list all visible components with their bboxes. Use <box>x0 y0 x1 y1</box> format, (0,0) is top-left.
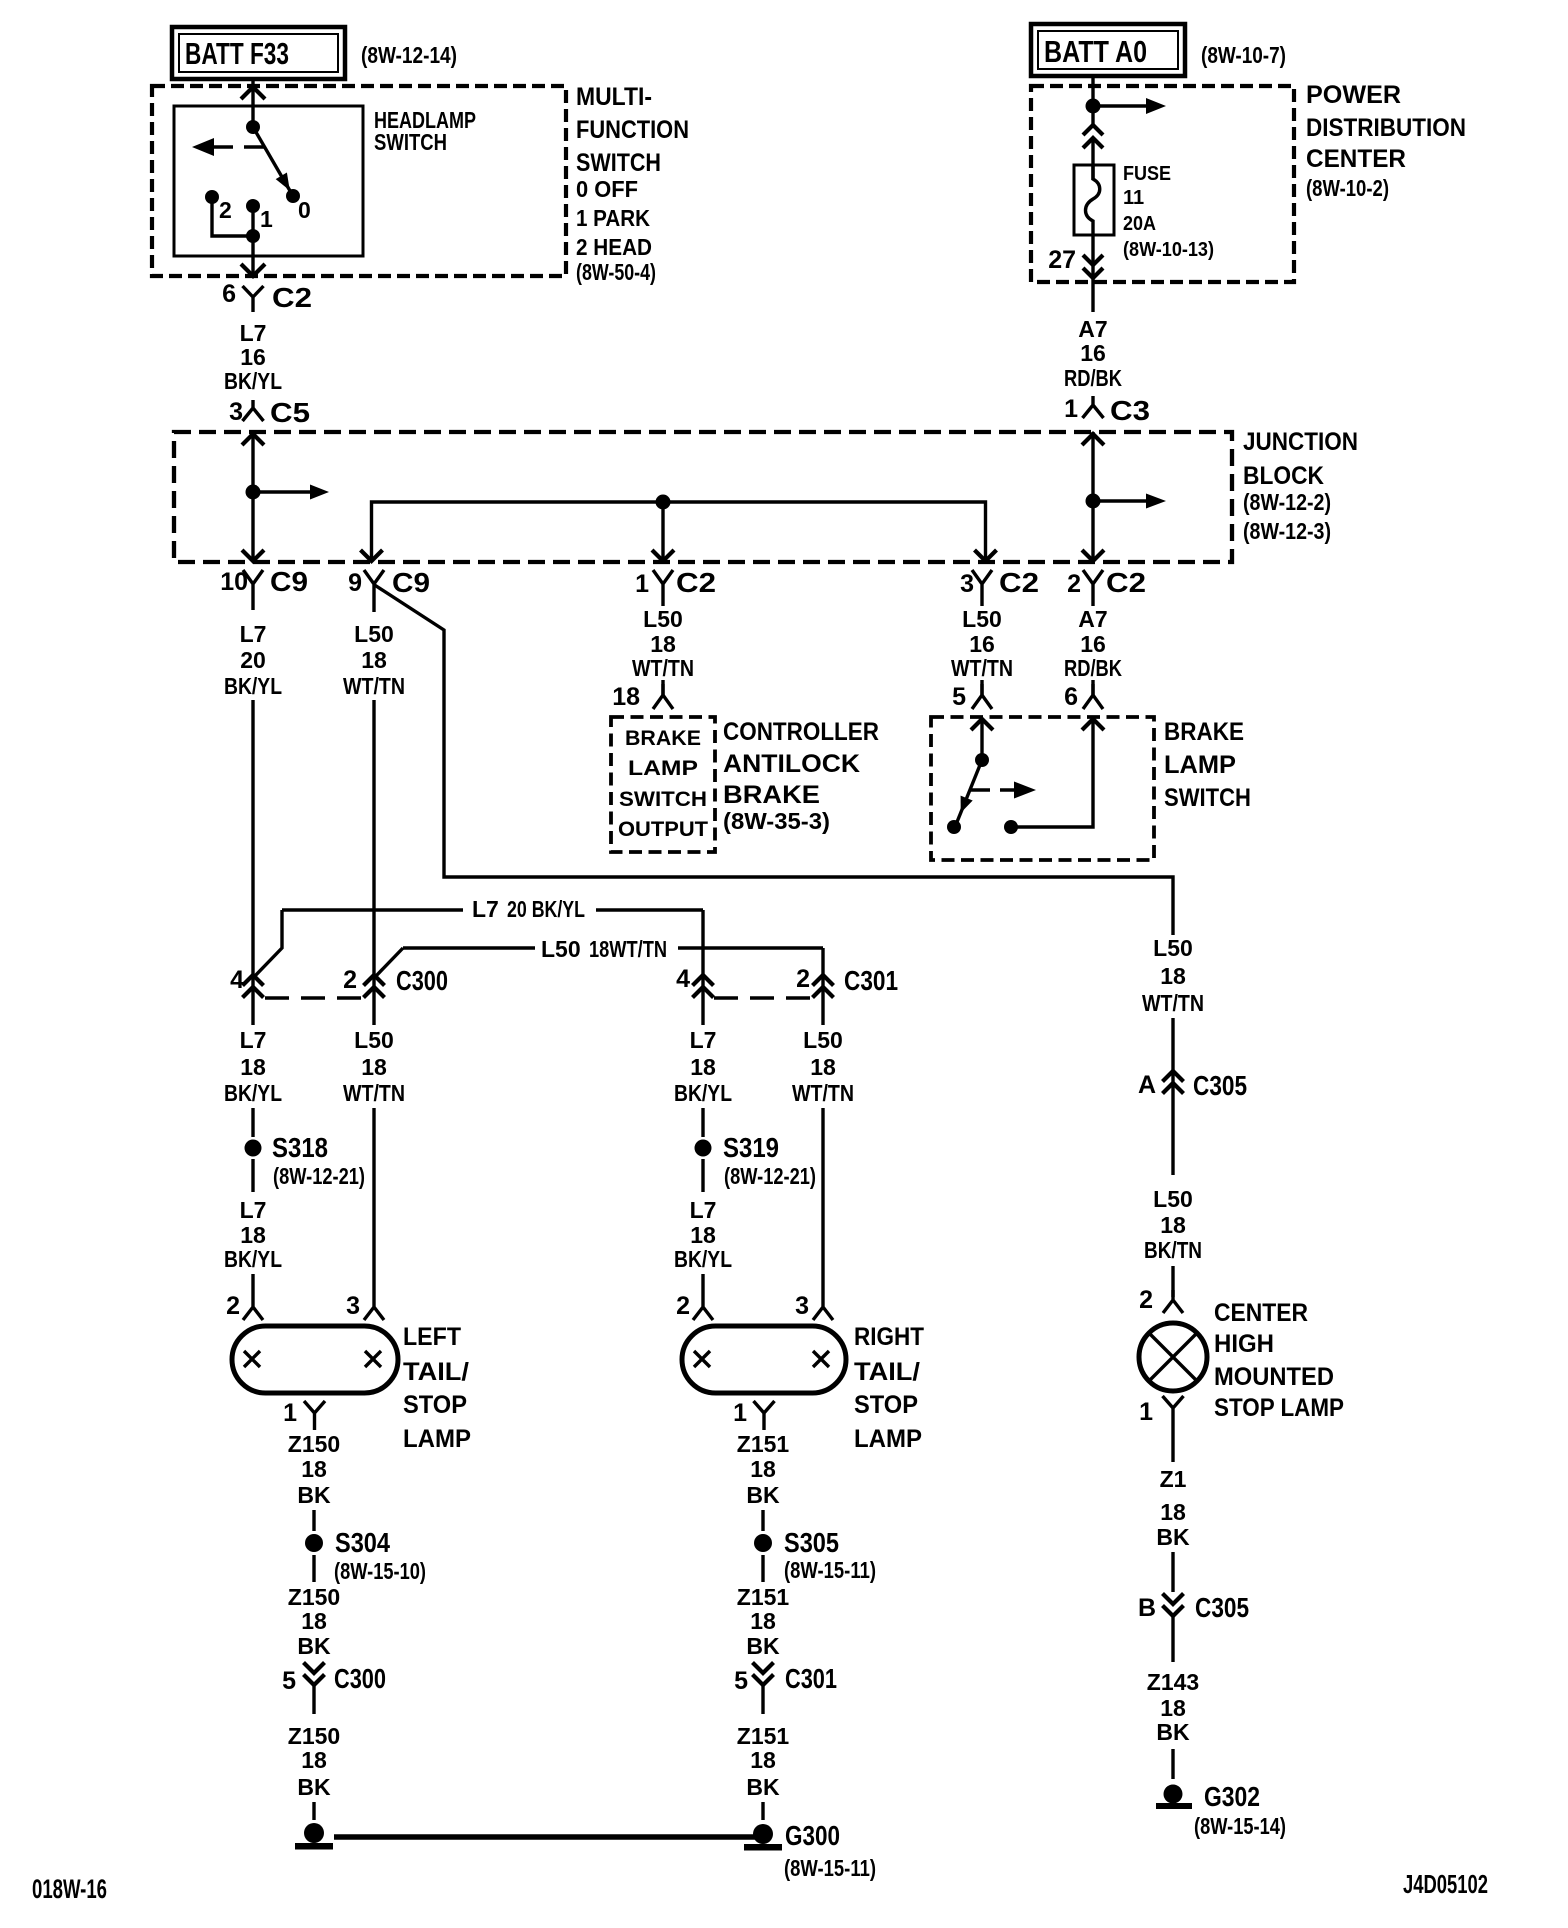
BLS pivot dot <box>975 753 989 767</box>
controller antilock brake dashed box <box>611 717 715 852</box>
svg-text:(8W-12-21): (8W-12-21) <box>724 1163 816 1189</box>
svg-text:18: 18 <box>301 1608 327 1634</box>
wire L50 drop to C300 <box>372 700 375 1025</box>
svg-text:(8W-10-13): (8W-10-13) <box>1123 239 1214 261</box>
svg-text:J4D05102: J4D05102 <box>1403 1869 1488 1899</box>
svg-text:L50: L50 <box>962 606 1002 632</box>
connector 5 BLS <box>952 683 992 711</box>
svg-text:5: 5 <box>282 1667 296 1695</box>
svg-text:5: 5 <box>734 1667 748 1695</box>
svg-text:Z1: Z1 <box>1160 1466 1187 1492</box>
svg-text:L7: L7 <box>240 1027 267 1053</box>
wire label A7 16 RD/BK <box>1064 316 1122 391</box>
wire segment above S305 <box>761 1510 764 1531</box>
svg-text:1 PARK: 1 PARK <box>576 205 650 231</box>
connector 2 center lamp <box>1139 1286 1183 1314</box>
splice S304 <box>305 1527 426 1584</box>
connector 2 right lamp <box>676 1292 713 1320</box>
svg-text:18: 18 <box>240 1054 266 1080</box>
svg-text:A7: A7 <box>1078 606 1107 632</box>
power distribution center dashed box <box>1031 86 1294 282</box>
wire L50 into left lamp pin 3 <box>372 1108 375 1297</box>
arrowhead out JB bottom left <box>242 550 264 561</box>
connector C300 pin 4 <box>230 966 263 998</box>
wire segment below S304 <box>312 1555 315 1582</box>
label POWER DISTRIBUTION CENTER <box>1306 81 1466 201</box>
wire segment above S304 <box>312 1510 315 1531</box>
fuse labels <box>1123 163 1214 261</box>
svg-text:STOP LAMP: STOP LAMP <box>1214 1394 1344 1422</box>
svg-text:LAMP: LAMP <box>854 1425 922 1453</box>
svg-text:S319: S319 <box>723 1132 779 1163</box>
svg-text:16: 16 <box>969 631 995 657</box>
svg-text:WT/TN: WT/TN <box>792 1080 854 1106</box>
svg-text:18: 18 <box>301 1747 327 1773</box>
svg-text:G300: G300 <box>785 1820 840 1851</box>
wire label L50 18 WT/TN controller <box>632 606 694 681</box>
BATT F33 feed box <box>172 27 345 79</box>
svg-text:MULTI-: MULTI- <box>576 83 652 111</box>
svg-text:L7: L7 <box>240 320 267 346</box>
svg-text:STOP: STOP <box>854 1391 918 1419</box>
wire label L7 20 BK/YL <box>224 621 282 699</box>
svg-text:BATT F33: BATT F33 <box>185 36 289 71</box>
svg-text:L7: L7 <box>690 1027 717 1053</box>
right tail/stop lamp <box>682 1326 846 1393</box>
svg-text:C300: C300 <box>334 1663 386 1694</box>
svg-text:BK: BK <box>1156 1524 1190 1550</box>
svg-text:L50: L50 <box>643 606 683 632</box>
bus junction dot <box>656 495 671 510</box>
svg-text:Z150: Z150 <box>288 1584 340 1610</box>
C300 pin link dashes <box>265 996 363 999</box>
svg-text:1: 1 <box>1139 1398 1153 1426</box>
svg-text:4: 4 <box>230 966 244 994</box>
svg-text:WT/TN: WT/TN <box>951 655 1013 681</box>
headlamp switch box <box>174 106 363 256</box>
arrowhead out JB bottom right <box>1082 550 1104 561</box>
splice S318 <box>245 1132 366 1189</box>
svg-text:(8W-12-2): (8W-12-2) <box>1243 489 1331 515</box>
svg-text:DISTRIBUTION: DISTRIBUTION <box>1306 114 1466 142</box>
wire segment above left ground <box>312 1802 315 1820</box>
svg-text:(8W-50-4): (8W-50-4) <box>576 259 656 285</box>
actuation arrow left <box>244 145 264 148</box>
svg-text:STOP: STOP <box>403 1391 467 1419</box>
wire segment above S318 <box>251 1108 254 1137</box>
connector 5 C300 <box>282 1663 386 1715</box>
svg-text:2: 2 <box>343 966 357 994</box>
svg-text:BRAKE: BRAKE <box>1164 718 1244 746</box>
svg-text:BK: BK <box>297 1774 331 1800</box>
svg-text:ANTILOCK: ANTILOCK <box>723 750 860 778</box>
svg-text:MOUNTED: MOUNTED <box>1214 1363 1334 1391</box>
svg-text:18: 18 <box>690 1054 716 1080</box>
svg-text:SWITCH: SWITCH <box>374 129 447 155</box>
svg-text:(8W-12-3): (8W-12-3) <box>1243 518 1331 544</box>
connector 3 C2 <box>960 567 1039 606</box>
connector C301 pin 4 <box>676 965 713 998</box>
splice S319 <box>695 1132 817 1189</box>
wire segment below S319 <box>701 1159 704 1192</box>
svg-text:Z150: Z150 <box>288 1431 340 1457</box>
svg-text:C3: C3 <box>1110 395 1150 426</box>
svg-text:TAIL/: TAIL/ <box>854 1358 920 1386</box>
wire label Z150 18 BK <box>288 1431 340 1508</box>
wire into left lamp pin 2 <box>251 1274 254 1297</box>
svg-text:18: 18 <box>1160 1212 1186 1238</box>
svg-text:1: 1 <box>283 1399 297 1427</box>
center high mounted stop lamp <box>1139 1323 1207 1391</box>
BLS fixed contact <box>1004 820 1018 834</box>
svg-text:Z143: Z143 <box>1147 1669 1199 1695</box>
label CONTROLLER ANTILOCK BRAKE <box>723 718 879 834</box>
svg-text:POWER: POWER <box>1306 81 1401 109</box>
svg-text:16: 16 <box>1080 340 1106 366</box>
svg-text:18: 18 <box>690 1222 716 1248</box>
svg-text:4: 4 <box>676 965 690 993</box>
svg-text:BLOCK: BLOCK <box>1243 462 1324 490</box>
svg-text:BK: BK <box>1156 1719 1190 1745</box>
wire contact2 to junction <box>212 197 253 236</box>
svg-text:WT/TN: WT/TN <box>632 655 694 681</box>
label line L7 20 BK/YL <box>254 896 703 1025</box>
svg-text:(8W-12-14): (8W-12-14) <box>361 42 457 68</box>
svg-text:(8W-12-21): (8W-12-21) <box>273 1163 365 1189</box>
wire out of MFS bottom <box>251 236 254 276</box>
svg-text:(8W-35-3): (8W-35-3) <box>723 808 830 834</box>
svg-text:BK: BK <box>746 1774 780 1800</box>
wire label Z150 18 BK mid <box>288 1584 340 1659</box>
JB left feed wire <box>251 432 254 562</box>
svg-text:2: 2 <box>1067 570 1081 598</box>
svg-text:16: 16 <box>1080 631 1106 657</box>
wire to BLS pin 5 <box>980 680 983 695</box>
svg-text:2: 2 <box>226 1292 240 1320</box>
wire to connector A C305 <box>1171 1018 1174 1175</box>
svg-text:3: 3 <box>960 570 974 598</box>
svg-text:A: A <box>1138 1071 1156 1099</box>
svg-text:20A: 20A <box>1123 213 1156 235</box>
svg-text:L7: L7 <box>690 1197 717 1223</box>
fuse 11 20A <box>1074 165 1114 235</box>
wire to fuse <box>1091 140 1094 180</box>
svg-text:CONTROLLER: CONTROLLER <box>723 718 879 746</box>
branch arrow right <box>1093 104 1147 107</box>
JB left branch arrow <box>253 490 311 493</box>
connector 6 C2 <box>222 280 312 313</box>
svg-text:BK: BK <box>746 1482 780 1508</box>
svg-text:L7: L7 <box>472 896 499 922</box>
ground left (to G300) <box>295 1823 333 1850</box>
svg-text:BK/YL: BK/YL <box>224 1080 282 1106</box>
arrowhead into JB top left <box>242 434 264 445</box>
connector A C305 <box>1138 1070 1247 1101</box>
svg-text:C301: C301 <box>785 1663 837 1694</box>
svg-text:18: 18 <box>361 1054 387 1080</box>
wire segment above S319 <box>701 1108 704 1137</box>
svg-text:C301: C301 <box>844 965 898 996</box>
svg-text:A7: A7 <box>1078 316 1107 342</box>
wire L50 into right lamp pin 3 <box>821 1108 824 1297</box>
svg-text:BK/YL: BK/YL <box>224 368 282 394</box>
wire segment above G300 <box>761 1802 764 1820</box>
svg-text:C5: C5 <box>270 397 310 428</box>
connector 2 left lamp <box>226 1292 263 1320</box>
svg-text:(8W-15-11): (8W-15-11) <box>784 1557 876 1583</box>
svg-text:2 HEAD: 2 HEAD <box>576 234 652 260</box>
BLS wire from pin 5 <box>980 718 983 760</box>
connector 1 center lamp <box>1139 1396 1183 1428</box>
svg-text:(8W-15-10): (8W-15-10) <box>334 1558 426 1584</box>
svg-text:C305: C305 <box>1195 1592 1249 1623</box>
svg-text:BK: BK <box>297 1482 331 1508</box>
wire label L50 16 WT/TN <box>951 606 1013 681</box>
svg-text:(8W-10-2): (8W-10-2) <box>1306 175 1389 201</box>
connector 9 C9 <box>348 567 430 612</box>
svg-text:CENTER: CENTER <box>1214 1299 1308 1327</box>
label MULTI-FUNCTION SWITCH <box>576 83 689 285</box>
wire segment below S318 <box>251 1159 254 1192</box>
svg-text:2: 2 <box>676 1292 690 1320</box>
label RIGHT TAIL/STOP LAMP <box>854 1323 924 1453</box>
label line L50 18WT/TN <box>375 936 823 1025</box>
JB internal bus wire <box>372 502 986 562</box>
svg-text:BATT A0: BATT A0 <box>1044 34 1147 69</box>
BLS moving contact <box>947 820 961 834</box>
svg-text:Z151: Z151 <box>737 1723 790 1749</box>
multi-function switch dashed box <box>152 86 566 276</box>
wire segment below S305 <box>761 1555 764 1582</box>
junction dot <box>246 229 260 243</box>
svg-text:SWITCH: SWITCH <box>576 149 661 177</box>
svg-text:18: 18 <box>612 683 640 711</box>
wire label Z151 18 BK <box>737 1431 790 1508</box>
connector 1 C2 <box>635 567 716 606</box>
wire to BLS pin 6 <box>1091 680 1094 695</box>
svg-text:18: 18 <box>750 1747 776 1773</box>
svg-text:1: 1 <box>1064 395 1078 423</box>
wire label Z151 18 BK mid <box>737 1584 790 1659</box>
wire into right lamp pin 2 <box>701 1274 704 1297</box>
wire below center lamp <box>1171 1428 1174 1462</box>
svg-text:LAMP: LAMP <box>1164 751 1236 779</box>
wire into center lamp pin 2 <box>1171 1266 1174 1297</box>
svg-text:L7: L7 <box>240 1197 267 1223</box>
in-line connector chevrons above fuse <box>1083 125 1103 148</box>
svg-text:FUNCTION: FUNCTION <box>576 116 689 144</box>
svg-text:9: 9 <box>348 569 362 597</box>
svg-text:S304: S304 <box>335 1527 390 1558</box>
arrowhead into JB top right <box>1082 434 1104 445</box>
connector 1 C3 <box>1064 395 1150 426</box>
connector 3 left lamp <box>346 1292 384 1320</box>
svg-text:LAMP: LAMP <box>403 1425 471 1453</box>
wire contact1 to junction <box>251 206 254 236</box>
svg-text:WT/TN: WT/TN <box>1142 990 1204 1016</box>
arrowhead out JB bus right <box>975 550 997 561</box>
svg-text:BK: BK <box>746 1633 780 1659</box>
svg-text:Z150: Z150 <box>288 1723 340 1749</box>
svg-text:1: 1 <box>260 206 273 232</box>
label CENTER HIGH MOUNTED STOP LAMP <box>1214 1299 1344 1422</box>
connector 18 CAB <box>612 683 673 711</box>
connector chevrons pin 27 <box>1083 255 1103 278</box>
wire label Z1 18 BK <box>1156 1466 1190 1550</box>
svg-text:2: 2 <box>219 197 232 223</box>
svg-text:S318: S318 <box>272 1132 328 1163</box>
label BRAKE LAMP SWITCH <box>1164 718 1251 812</box>
svg-text:(8W-15-14): (8W-15-14) <box>1194 1813 1286 1839</box>
svg-text:L50: L50 <box>803 1027 843 1053</box>
wire label Z150 18 BK lower <box>288 1723 340 1800</box>
C301 pin link dashes <box>714 996 812 999</box>
svg-text:LEFT: LEFT <box>403 1323 461 1351</box>
svg-text:L50: L50 <box>354 621 394 647</box>
connector 5 C301 <box>734 1663 837 1715</box>
wire label L7 18 BK/YL right <box>674 1027 732 1106</box>
svg-text:LAMP: LAMP <box>628 757 698 780</box>
arrowhead into BLS left <box>971 719 993 730</box>
arrowhead out of MFS bottom <box>241 264 265 276</box>
svg-text:1: 1 <box>635 570 649 598</box>
label HEADLAMP SWITCH <box>374 107 476 155</box>
svg-text:0 OFF: 0 OFF <box>576 176 638 202</box>
svg-text:WT/TN: WT/TN <box>343 1080 405 1106</box>
svg-text:BRAKE: BRAKE <box>625 727 701 750</box>
svg-text:L7: L7 <box>240 621 267 647</box>
wire label L50 18 WT/TN right lamp <box>792 1027 854 1106</box>
svg-text:C2: C2 <box>999 567 1039 598</box>
svg-text:RD/BK: RD/BK <box>1064 365 1122 391</box>
svg-text:18: 18 <box>1160 1499 1186 1525</box>
svg-text:C300: C300 <box>396 965 448 996</box>
svg-text:FUSE: FUSE <box>1123 163 1171 185</box>
svg-text:3: 3 <box>229 398 243 426</box>
arrowhead out JB bus middle <box>652 550 674 561</box>
svg-text:OUTPUT: OUTPUT <box>618 818 708 841</box>
svg-text:018W-16: 018W-16 <box>32 1874 107 1904</box>
svg-text:BK/TN: BK/TN <box>1144 1237 1202 1263</box>
svg-text:L50: L50 <box>1153 935 1193 961</box>
svg-text:3: 3 <box>346 1292 360 1320</box>
junction block dashed box <box>174 432 1232 562</box>
svg-text:BRAKE: BRAKE <box>723 781 820 809</box>
contact 1 <box>246 199 260 213</box>
svg-text:2: 2 <box>1139 1286 1153 1314</box>
svg-text:L50: L50 <box>541 936 581 962</box>
wire label L7 18 BK/YL right lower <box>674 1197 732 1272</box>
svg-text:18: 18 <box>750 1608 776 1634</box>
svg-text:20 BK/YL: 20 BK/YL <box>507 896 585 922</box>
svg-text:S305: S305 <box>784 1527 839 1558</box>
svg-text:16: 16 <box>240 344 266 370</box>
svg-text:18: 18 <box>810 1054 836 1080</box>
svg-text:RD/BK: RD/BK <box>1064 655 1122 681</box>
switch blade to position 0 <box>253 127 293 196</box>
label JUNCTION BLOCK <box>1243 428 1358 544</box>
contact 0 <box>286 189 300 203</box>
svg-text:27: 27 <box>1048 246 1076 274</box>
svg-text:RIGHT: RIGHT <box>854 1323 924 1351</box>
junction dot in PDC <box>1086 99 1101 114</box>
svg-text:Z151: Z151 <box>737 1584 790 1610</box>
wire label L7 18 BK/YL left lower <box>224 1197 282 1272</box>
svg-text:18: 18 <box>1160 963 1186 989</box>
svg-text:6: 6 <box>222 280 236 308</box>
BLS blade <box>957 760 982 822</box>
wire 9 C9 branch diagonal to center lamp feed <box>375 585 1173 935</box>
wire label Z151 18 BK lower <box>737 1723 790 1800</box>
bus drop wire <box>661 502 664 562</box>
svg-text:6: 6 <box>1064 683 1078 711</box>
wire label L50 18 WT/TN left lamp <box>343 1027 405 1106</box>
svg-text:L50: L50 <box>354 1027 394 1053</box>
ground G302 <box>1156 1781 1286 1839</box>
connector 6 BLS <box>1064 683 1103 711</box>
splice S305 <box>754 1527 876 1583</box>
svg-text:C2: C2 <box>676 567 716 598</box>
label LEFT TAIL/STOP LAMP <box>403 1323 471 1453</box>
connector 2 C2 <box>1067 567 1146 606</box>
wire label L7 18 BK/YL left <box>224 1027 282 1106</box>
svg-text:18WT/TN: 18WT/TN <box>589 936 667 962</box>
JB right feed wire <box>1091 432 1094 562</box>
JB left junction dot <box>246 485 261 500</box>
arrowhead into MFS top <box>241 87 265 99</box>
svg-text:C9: C9 <box>392 567 430 598</box>
arrowhead out JB bus left <box>361 550 383 561</box>
svg-text:20: 20 <box>240 647 266 673</box>
wire label A7 16 RD/BK <box>1064 606 1122 681</box>
svg-text:BK/YL: BK/YL <box>674 1246 732 1272</box>
svg-text:18: 18 <box>301 1456 327 1482</box>
connector C300 pin 2 <box>343 965 448 998</box>
wire label L50 18 WT/TN <box>343 621 405 699</box>
svg-text:HIGH: HIGH <box>1214 1330 1274 1358</box>
ground link wire <box>334 1834 755 1840</box>
BLS actuation arrow <box>971 788 1015 791</box>
wire label Z143 18 BK <box>1147 1669 1199 1745</box>
svg-text:L50: L50 <box>1153 1186 1193 1212</box>
connector 10 C9 <box>220 566 308 610</box>
connector 3 right lamp <box>795 1292 833 1320</box>
ground G300 <box>744 1820 876 1881</box>
brake lamp switch dashed box <box>931 717 1154 860</box>
wire from BATT A0 <box>1091 76 1094 126</box>
svg-text:18: 18 <box>650 631 676 657</box>
svg-text:(8W-10-7): (8W-10-7) <box>1201 42 1286 68</box>
svg-text:BK/YL: BK/YL <box>224 1246 282 1272</box>
JB right junction dot <box>1086 494 1101 509</box>
contact 2 <box>205 190 219 204</box>
svg-text:C2: C2 <box>272 282 312 313</box>
svg-text:0: 0 <box>298 197 311 223</box>
svg-text:18: 18 <box>361 647 387 673</box>
left tail/stop lamp <box>232 1326 398 1393</box>
wire label L7 16 BK/YL <box>224 320 282 394</box>
svg-text:BK: BK <box>297 1633 331 1659</box>
wire to controller connector <box>661 680 664 695</box>
svg-text:11: 11 <box>1123 187 1144 209</box>
wire label L50 18 BK/TN <box>1144 1186 1202 1263</box>
svg-text:BK/YL: BK/YL <box>674 1080 732 1106</box>
svg-text:C9: C9 <box>270 566 308 597</box>
svg-text:1: 1 <box>733 1399 747 1427</box>
wire segment above G302 <box>1171 1749 1174 1779</box>
connector 1 right lamp <box>733 1399 774 1430</box>
svg-text:G302: G302 <box>1204 1781 1260 1812</box>
